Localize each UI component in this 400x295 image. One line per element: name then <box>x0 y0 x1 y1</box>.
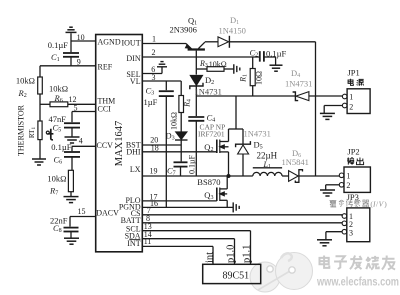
svg-text:1N5841: 1N5841 <box>282 157 309 167</box>
node wire from D2 to JP1 <box>196 95 343 97</box>
svg-text:0.1µF: 0.1µF <box>51 142 72 152</box>
wire IOUT pin 1 <box>142 34 186 43</box>
svg-text:22µH: 22µH <box>257 151 278 161</box>
inductor L1 22uH <box>253 151 282 177</box>
svg-text:2: 2 <box>349 103 353 112</box>
svg-text:CCV: CCV <box>97 141 114 150</box>
svg-text:0.1µF: 0.1µF <box>266 48 287 58</box>
svg-text:1µF: 1µF <box>144 97 158 107</box>
capacitor C2 0.1uF to ground <box>250 47 287 71</box>
wire CS pin 7 <box>142 206 342 215</box>
wire SEL pin 6 to ground <box>142 62 167 74</box>
connector JP2 output <box>339 147 370 193</box>
wire CCI pin 5 <box>72 103 96 122</box>
svg-text:19: 19 <box>150 166 158 175</box>
svg-text:p1.0: p1.0 <box>226 245 237 263</box>
wire PGND pin 16 to ground <box>142 199 239 212</box>
resistor R4 10k <box>170 81 193 132</box>
diode D1 1N4150 <box>205 15 316 48</box>
wire JP3 pin1 jog <box>341 215 343 216</box>
svg-text:AGND: AGND <box>98 38 121 47</box>
svg-text:3: 3 <box>349 228 353 237</box>
schottky diode D6 1N5841 <box>282 148 340 182</box>
wire LX pin 19 with junction dot <box>142 166 253 178</box>
right rail wire <box>315 42 317 176</box>
resistor R3 10k to ground <box>196 59 240 74</box>
capacitor C3 1uF with rail to PGND <box>144 81 174 207</box>
svg-text:4: 4 <box>79 136 83 145</box>
wire REF pin 9 <box>40 58 96 67</box>
svg-text:p1.1: p1.1 <box>242 245 253 263</box>
wire SCL pin 13 to p1.1 <box>142 222 252 264</box>
svg-text:www.elecfans.com: www.elecfans.com <box>316 277 399 289</box>
capacitor C5 47nF <box>49 114 80 137</box>
svg-text:1: 1 <box>349 93 353 102</box>
svg-text:1: 1 <box>152 34 156 43</box>
wire BST pin 20 <box>142 135 181 145</box>
connector JP1 power <box>342 68 370 114</box>
resistor R1 10ohm <box>239 57 264 96</box>
ground at JP3 pin 3 <box>317 232 342 246</box>
svg-text:2: 2 <box>152 48 156 57</box>
wire DHI pin 18 to Q2 gate <box>142 143 217 152</box>
svg-text:DIN: DIN <box>126 54 140 63</box>
svg-text:15: 15 <box>78 207 86 216</box>
svg-text:BS870: BS870 <box>197 177 220 187</box>
svg-text:10: 10 <box>77 33 85 42</box>
ground above AGND <box>66 27 77 41</box>
svg-text:89C51: 89C51 <box>223 271 250 282</box>
svg-text:10kΩ: 10kΩ <box>49 84 68 94</box>
wire DIN pin 2 <box>142 48 259 57</box>
svg-text:VL: VL <box>130 77 141 86</box>
wire PLO pin 17 <box>142 192 217 201</box>
svg-text:int: int <box>204 252 215 263</box>
wire DACV pin 15 <box>70 207 96 227</box>
wire CCV pin 4 <box>72 146 96 151</box>
svg-text:1N4731: 1N4731 <box>285 78 312 88</box>
wire INT pin 11 to int <box>142 237 215 264</box>
ground under R7 <box>64 197 79 203</box>
transistor Q2 IRF7201 n-mosfet <box>204 129 228 176</box>
svg-text:10Ω: 10Ω <box>255 71 264 85</box>
ground at JP1 pin 2 <box>320 106 343 120</box>
wire VL pin 3 <box>142 73 181 82</box>
svg-text:10kΩ: 10kΩ <box>47 174 66 184</box>
svg-text:16: 16 <box>150 199 158 208</box>
resistor R7 10k <box>47 170 73 196</box>
svg-text:DHI: DHI <box>126 148 141 157</box>
svg-text:R310kΩ: R310kΩ <box>199 59 227 69</box>
svg-text:10kΩ: 10kΩ <box>170 112 179 130</box>
diode D3 <box>166 131 188 162</box>
ground under RT1 <box>32 159 46 165</box>
capacitor C4 CAP NP <box>188 96 225 176</box>
ground under C5 and pin 4 label <box>65 136 83 145</box>
svg-text:LX: LX <box>130 165 141 174</box>
resistor R2 10k <box>16 66 42 99</box>
mcu U2 89C51 box <box>203 264 261 283</box>
svg-text:1: 1 <box>346 171 350 180</box>
svg-text:1N4731: 1N4731 <box>195 87 222 97</box>
svg-text:MAX1647: MAX1647 <box>114 121 125 167</box>
svg-text:2N3906: 2N3906 <box>170 24 197 34</box>
wire AGND pin 10 <box>71 33 96 42</box>
zener diode D5 1N4731 <box>236 129 271 177</box>
transistor Q3 BS870 n-mosfet <box>197 176 227 207</box>
capacitor C1 0.1uF <box>48 40 79 66</box>
connector JP3 hall sensor <box>330 192 388 242</box>
svg-text:IOUT: IOUT <box>121 38 140 47</box>
resistor R6 10k with THM wire pin 12 <box>40 84 96 107</box>
svg-text:JP2: JP2 <box>347 147 359 157</box>
capacitor C6 0.1uF <box>51 142 80 171</box>
capacitor C7 0.1uF <box>167 154 197 176</box>
svg-text:REF: REF <box>98 62 113 71</box>
thermistor RT1 <box>17 94 54 159</box>
ground under C8 <box>64 238 79 244</box>
svg-text:0.1µF: 0.1µF <box>188 154 197 174</box>
svg-text:11: 11 <box>144 237 152 246</box>
op-amp U1 MAX1647 charge controller IC <box>96 35 143 252</box>
capacitor C8 22nF <box>50 215 78 237</box>
wire stem to Q2 drain bar <box>229 96 244 129</box>
wire SDA pin 14 to p1.0 <box>142 230 236 264</box>
svg-text:THERMISTOR: THERMISTOR <box>17 104 26 156</box>
svg-text:1N4731: 1N4731 <box>244 129 271 139</box>
svg-text:INT: INT <box>127 239 140 248</box>
svg-text:CCI: CCI <box>98 104 112 113</box>
transistor Q1 2N3906 <box>170 15 205 74</box>
svg-text:10kΩ: 10kΩ <box>16 75 35 85</box>
zener diode D2 1N4731 <box>190 75 222 97</box>
wire JP3 pin2 jog <box>341 222 343 225</box>
svg-text:1N4150: 1N4150 <box>219 26 246 36</box>
svg-text:5: 5 <box>74 103 78 112</box>
svg-text:9: 9 <box>77 58 81 67</box>
svg-text:DACV: DACV <box>96 209 119 218</box>
svg-text:3: 3 <box>152 73 156 82</box>
svg-text:JP1: JP1 <box>348 68 360 78</box>
svg-text:IRF7201: IRF7201 <box>198 129 225 138</box>
watermark logo and text <box>250 253 399 293</box>
svg-text:2: 2 <box>346 181 350 190</box>
wire BATT pin 8 <box>142 214 342 223</box>
svg-text:18: 18 <box>151 143 159 152</box>
svg-text:0.1µF: 0.1µF <box>48 40 69 50</box>
zener diode D4 1N4731 <box>285 68 312 101</box>
ground at JP2 pin 2 <box>320 185 339 196</box>
